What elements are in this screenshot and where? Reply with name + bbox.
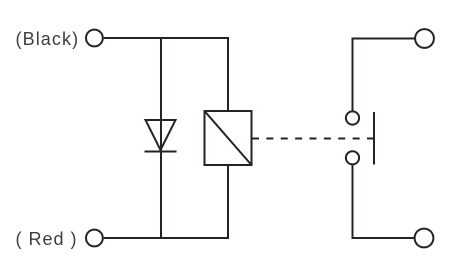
terminal circle coil - ( Red ) xyxy=(86,230,103,247)
diode D1 cathode bar xyxy=(145,151,177,153)
wire diode branch vertical xyxy=(160,37,162,239)
diode D1 triangle xyxy=(146,120,176,150)
relay coil K1 box xyxy=(205,111,252,165)
wire coil bottom vertical xyxy=(227,165,229,239)
wire contact bottom vertical xyxy=(352,165,354,240)
wire top coil horizontal xyxy=(104,37,228,39)
relay coil K1 diagonal xyxy=(205,111,252,165)
terminal circle contact bottom xyxy=(415,229,434,248)
contact point bottom circle xyxy=(346,151,359,164)
terminal circle contact top xyxy=(415,29,434,48)
svg-text:(Black): (Black) xyxy=(16,29,80,49)
switch armature bar xyxy=(373,112,375,165)
contact point top circle xyxy=(346,111,359,124)
mechanical link dashed line xyxy=(252,138,374,140)
wire coil top vertical xyxy=(227,37,229,111)
wire bottom coil horizontal xyxy=(104,237,228,239)
svg-text:( Red ): ( Red ) xyxy=(16,229,78,249)
wire contact top horizontal xyxy=(352,38,416,40)
terminal circle coil + (Black) xyxy=(86,30,103,47)
wire contact bottom horizontal xyxy=(352,237,415,239)
wire contact top vertical xyxy=(352,38,354,111)
